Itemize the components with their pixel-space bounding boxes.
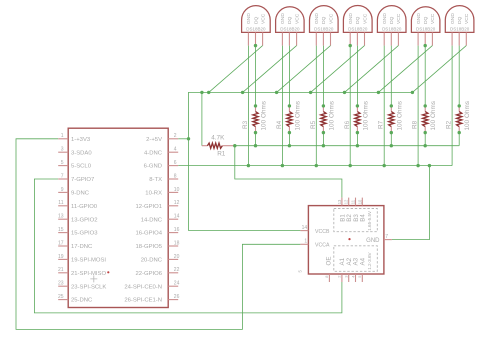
- junction on bus: [275, 91, 278, 94]
- temperature sensor DS18B20 #4: [343, 6, 372, 46]
- svg-text:2: 2: [337, 275, 342, 278]
- svg-text:10-RX: 10-RX: [145, 191, 162, 197]
- wire resistor to data bus: [322, 133, 324, 146]
- svg-text:DS18B20: DS18B20: [280, 26, 300, 31]
- svg-text:26: 26: [174, 294, 180, 300]
- dashed A-side box: [334, 246, 378, 271]
- junction on ground bus: [383, 164, 386, 167]
- svg-text:25-DNC: 25-DNC: [71, 298, 93, 304]
- wire ground tap to IC GND: [392, 166, 430, 240]
- svg-text:100 Ohms: 100 Ohms: [261, 101, 268, 130]
- junction on ground bus: [416, 164, 419, 167]
- wire DQ pin down to resistor: [356, 46, 358, 106]
- junction on bus: [309, 91, 312, 94]
- svg-text:12: 12: [344, 199, 349, 204]
- svg-text:VCC: VCC: [362, 13, 368, 24]
- svg-text:19: 19: [58, 254, 64, 260]
- wire diagonal VCC to bus: [209, 46, 263, 93]
- svg-text:10: 10: [357, 199, 362, 204]
- wire DQ pin down to resistor: [424, 46, 426, 106]
- svg-text:22: 22: [174, 267, 180, 273]
- svg-text:14-DNC: 14-DNC: [141, 217, 163, 223]
- svg-text:4: 4: [350, 275, 355, 278]
- svg-text:5: 5: [357, 275, 362, 278]
- IC origin mark: [348, 238, 350, 240]
- temperature sensor DS18B20 #5: [377, 6, 406, 46]
- junction on data bus: [254, 144, 257, 147]
- svg-text:3: 3: [61, 147, 64, 153]
- svg-text:1.65-5.5V: 1.65-5.5V: [367, 210, 372, 231]
- resistor R8 100 Ohms: [412, 101, 438, 133]
- temperature sensor DS18B20 #7: [445, 6, 474, 46]
- svg-text:2-+5V: 2-+5V: [146, 137, 162, 143]
- junction on bus: [343, 91, 346, 94]
- svg-text:5-SCL0: 5-SCL0: [71, 164, 92, 170]
- svg-text:26-SPI-CE1-N: 26-SPI-CE1-N: [124, 298, 162, 304]
- junction on ground bus: [281, 164, 284, 167]
- svg-text:11: 11: [351, 199, 356, 204]
- junction resistor top: [458, 104, 461, 107]
- junction on ground bus: [247, 164, 250, 167]
- junction R1 top on bus: [200, 91, 203, 94]
- svg-text:11: 11: [58, 200, 63, 206]
- wire GND pin down to ground bus: [315, 46, 317, 166]
- svg-text:OE: OE: [326, 257, 333, 266]
- junction on data bus: [356, 144, 359, 147]
- svg-text:13-GPIO2: 13-GPIO2: [71, 217, 98, 223]
- wire GND pin down to ground bus: [417, 46, 419, 166]
- svg-text:15: 15: [58, 227, 64, 233]
- svg-text:22-GPIO6: 22-GPIO6: [135, 271, 162, 277]
- svg-text:GND: GND: [348, 13, 354, 24]
- wire diagonal VCC to bus: [311, 46, 365, 93]
- temperature sensor DS18B20 #6: [411, 7, 440, 46]
- svg-text:9: 9: [61, 187, 64, 193]
- wire GPIO7: pin7 to A1: [34, 179, 342, 313]
- svg-text:4-DNC: 4-DNC: [144, 150, 163, 156]
- junction resistor bottom: [322, 131, 325, 134]
- svg-text:VCCA: VCCA: [315, 243, 330, 249]
- svg-text:GND: GND: [450, 13, 456, 24]
- junction on data bus: [288, 144, 291, 147]
- svg-text:100 Ohms: 100 Ohms: [430, 101, 437, 130]
- wire +5V net: pin2 to bus and VCCB: [178, 138, 188, 140]
- junction resistor top: [254, 104, 257, 107]
- svg-text:DS18B20: DS18B20: [382, 26, 402, 31]
- svg-text:DS18B20: DS18B20: [450, 26, 470, 31]
- svg-text:R6: R6: [344, 120, 351, 129]
- svg-text:VCC: VCC: [294, 13, 300, 24]
- svg-text:18: 18: [174, 240, 180, 246]
- junction on DQ pin: [254, 44, 257, 47]
- svg-text:DQ: DQ: [253, 16, 259, 24]
- wire DQ pin down to resistor: [390, 46, 392, 106]
- svg-text:1: 1: [304, 239, 307, 245]
- svg-text:1-+3V3: 1-+3V3: [71, 137, 91, 143]
- junction ground tap: [428, 164, 431, 167]
- svg-text:20-DNC: 20-DNC: [141, 258, 163, 264]
- wire DQ pin down to resistor: [288, 46, 290, 106]
- svg-text:5: 5: [61, 160, 64, 166]
- wire 1-wire data bus: [235, 145, 459, 147]
- junction on bus: [377, 91, 380, 94]
- junction R1 right on data bus: [233, 144, 236, 147]
- resistor R2 100 Ohms: [446, 101, 472, 133]
- svg-text:R5: R5: [310, 120, 317, 129]
- svg-text:DS18B20: DS18B20: [416, 26, 436, 31]
- junction on bus: [411, 91, 414, 94]
- svg-text:3-SDA0: 3-SDA0: [71, 150, 92, 156]
- svg-text:15-GPIO3: 15-GPIO3: [71, 231, 98, 237]
- svg-text:24-SPI-CE0-N: 24-SPI-CE0-N: [124, 284, 162, 290]
- junction resistor bottom: [356, 131, 359, 134]
- junction on data bus: [424, 144, 427, 147]
- svg-text:10: 10: [174, 187, 180, 193]
- svg-text:B4: B4: [360, 214, 367, 222]
- wire DQ pin down to resistor: [322, 46, 324, 106]
- svg-text:16-GPIO4: 16-GPIO4: [135, 231, 162, 237]
- svg-text:4: 4: [174, 147, 177, 153]
- junction on data bus: [390, 144, 393, 147]
- svg-text:6: 6: [174, 160, 177, 166]
- svg-text:25: 25: [58, 294, 64, 300]
- svg-text:100 Ohms: 100 Ohms: [464, 101, 471, 130]
- svg-text:17: 17: [58, 240, 64, 246]
- wire GND pin down to ground bus: [247, 46, 249, 166]
- svg-text:DQ: DQ: [355, 16, 361, 24]
- level shifter IC TXB0104: [298, 198, 392, 282]
- svg-text:5: 5: [298, 270, 303, 273]
- svg-text:100 Ohms: 100 Ohms: [328, 101, 335, 130]
- wire resistor to data bus: [356, 133, 358, 146]
- junction resistor top: [424, 104, 427, 107]
- svg-text:8: 8: [174, 173, 177, 179]
- svg-text:VCCB: VCCB: [315, 229, 330, 235]
- svg-text:DQ: DQ: [389, 16, 395, 24]
- svg-text:13: 13: [58, 214, 64, 220]
- svg-text:1: 1: [61, 133, 64, 139]
- svg-text:21: 21: [58, 267, 64, 273]
- svg-text:VCC: VCC: [430, 13, 436, 24]
- junction resistor top: [390, 104, 393, 107]
- svg-text:7-GPIO7: 7-GPIO7: [71, 177, 94, 183]
- svg-text:100 Ohms: 100 Ohms: [294, 101, 301, 130]
- wire resistor to data bus: [255, 133, 257, 146]
- junction resistor top: [288, 104, 291, 107]
- svg-text:VCC: VCC: [396, 13, 402, 24]
- resistor R3 100 Ohms: [242, 101, 268, 133]
- temperature sensor DS18B20 #3: [310, 6, 339, 46]
- svg-text:9-DNC: 9-DNC: [71, 191, 90, 197]
- svg-text:GND: GND: [280, 13, 286, 24]
- wire GND pin down to ground bus: [281, 46, 283, 166]
- svg-text:DS18B20: DS18B20: [246, 26, 266, 31]
- svg-text:R3: R3: [242, 120, 249, 129]
- svg-text:4.7K: 4.7K: [211, 134, 225, 141]
- temperature sensor DS18B20 #2: [276, 7, 305, 46]
- wire resistor to data bus: [288, 133, 290, 146]
- wire diagonal VCC to bus: [345, 46, 399, 93]
- svg-text:GND: GND: [314, 13, 320, 24]
- svg-text:1.2-3.6V: 1.2-3.6V: [367, 251, 372, 269]
- junction resistor bottom: [254, 131, 257, 134]
- wire GND pin down to ground bus: [349, 46, 351, 166]
- svg-text:11-GPIO0: 11-GPIO0: [71, 204, 98, 210]
- svg-text:8-TX: 8-TX: [149, 177, 162, 183]
- wire resistor to data bus: [424, 133, 426, 146]
- svg-text:R7: R7: [378, 120, 385, 129]
- svg-text:R1: R1: [217, 150, 226, 157]
- svg-text:12-GPIO1: 12-GPIO1: [135, 204, 162, 210]
- svg-text:DQ: DQ: [287, 16, 293, 24]
- svg-text:8: 8: [324, 275, 329, 278]
- junction on DQ pin: [424, 44, 427, 47]
- svg-text:18-GPIO5: 18-GPIO5: [135, 244, 162, 250]
- junction on bus: [241, 91, 244, 94]
- svg-text:100 Ohms: 100 Ohms: [362, 101, 369, 130]
- wire R1 pullup to +5V bus: [201, 92, 203, 145]
- svg-text:GND: GND: [416, 13, 422, 24]
- svg-text:19-SPI-MOSI: 19-SPI-MOSI: [71, 258, 106, 264]
- connector origin mark: [90, 275, 97, 282]
- svg-text:7: 7: [61, 173, 64, 179]
- junction resistor bottom: [288, 131, 291, 134]
- svg-text:R2: R2: [446, 120, 453, 129]
- wire ground bus from pin 6: [178, 165, 452, 167]
- dashed B-side box: [334, 209, 378, 232]
- svg-text:DS18B20: DS18B20: [314, 26, 334, 31]
- junction resistor top: [356, 104, 359, 107]
- svg-text:VCC: VCC: [328, 13, 334, 24]
- svg-text:GND: GND: [382, 13, 388, 24]
- junction resistor bottom: [390, 131, 393, 134]
- wire GND pin down to ground bus: [383, 46, 385, 166]
- svg-text:17-DNC: 17-DNC: [71, 244, 93, 250]
- resistor R6 100 Ohms: [344, 101, 370, 133]
- wire diagonal VCC to bus: [412, 46, 466, 93]
- svg-text:12: 12: [174, 200, 180, 206]
- svg-text:20: 20: [174, 254, 180, 260]
- svg-text:6-GND: 6-GND: [144, 164, 162, 170]
- resistor R5 100 Ohms: [310, 101, 336, 133]
- wire diagonal VCC to bus: [378, 46, 432, 93]
- junction resistor bottom: [424, 131, 427, 134]
- svg-text:DQ: DQ: [423, 16, 429, 24]
- svg-text:GND: GND: [246, 13, 252, 24]
- wire GND pin down to ground bus: [451, 46, 453, 166]
- junction on GND pin: [349, 44, 352, 47]
- svg-text:2: 2: [174, 133, 177, 139]
- svg-text:24: 24: [174, 281, 180, 287]
- junction +5V at pin 2: [187, 137, 190, 140]
- svg-text:VCC: VCC: [464, 13, 470, 24]
- wire DQ pin down to resistor: [458, 46, 460, 106]
- resistor R4 100 Ohms: [276, 101, 302, 133]
- wire DQ pin down to resistor: [255, 46, 257, 106]
- svg-text:14: 14: [302, 225, 308, 231]
- svg-text:21-SPI-MISO: 21-SPI-MISO: [71, 271, 106, 277]
- svg-text:DQ: DQ: [457, 16, 463, 24]
- svg-text:14: 14: [174, 214, 180, 220]
- Raspberry Pi GPIO connector: [58, 128, 180, 307]
- junction on ground bus: [315, 164, 318, 167]
- wire diagonal VCC to bus: [243, 46, 297, 93]
- resistor R7 100 Ohms: [378, 101, 404, 133]
- junction on data bus: [322, 144, 325, 147]
- svg-text:7: 7: [385, 234, 388, 240]
- wire resistor to data bus: [390, 133, 392, 146]
- svg-text:DS18B20: DS18B20: [348, 26, 368, 31]
- temperature sensor DS18B20 #1: [242, 6, 271, 46]
- wire data bus to B1: [235, 146, 342, 198]
- svg-text:23: 23: [58, 281, 64, 287]
- wire diagonal VCC to bus: [277, 46, 331, 93]
- junction on bus: [207, 91, 210, 94]
- svg-text:100 Ohms: 100 Ohms: [396, 101, 403, 130]
- svg-text:DQ: DQ: [321, 16, 327, 24]
- wire resistor to data bus: [458, 133, 460, 146]
- svg-text:16: 16: [174, 227, 180, 233]
- junction resistor top: [322, 104, 325, 107]
- junction resistor bottom: [458, 131, 461, 134]
- svg-text:VCC: VCC: [260, 13, 266, 24]
- svg-text:A4: A4: [360, 257, 367, 265]
- junction on ground bus: [349, 164, 352, 167]
- svg-text:3: 3: [344, 275, 349, 278]
- resistor R1 4.7K: [202, 134, 235, 157]
- svg-text:R4: R4: [276, 120, 283, 129]
- svg-text:R8: R8: [412, 120, 419, 129]
- svg-text:GND: GND: [366, 238, 380, 244]
- wire 3V3: pin1 to VCCA: [16, 139, 300, 330]
- svg-text:13: 13: [337, 199, 342, 204]
- svg-text:23-SPI-SCLK: 23-SPI-SCLK: [71, 284, 106, 290]
